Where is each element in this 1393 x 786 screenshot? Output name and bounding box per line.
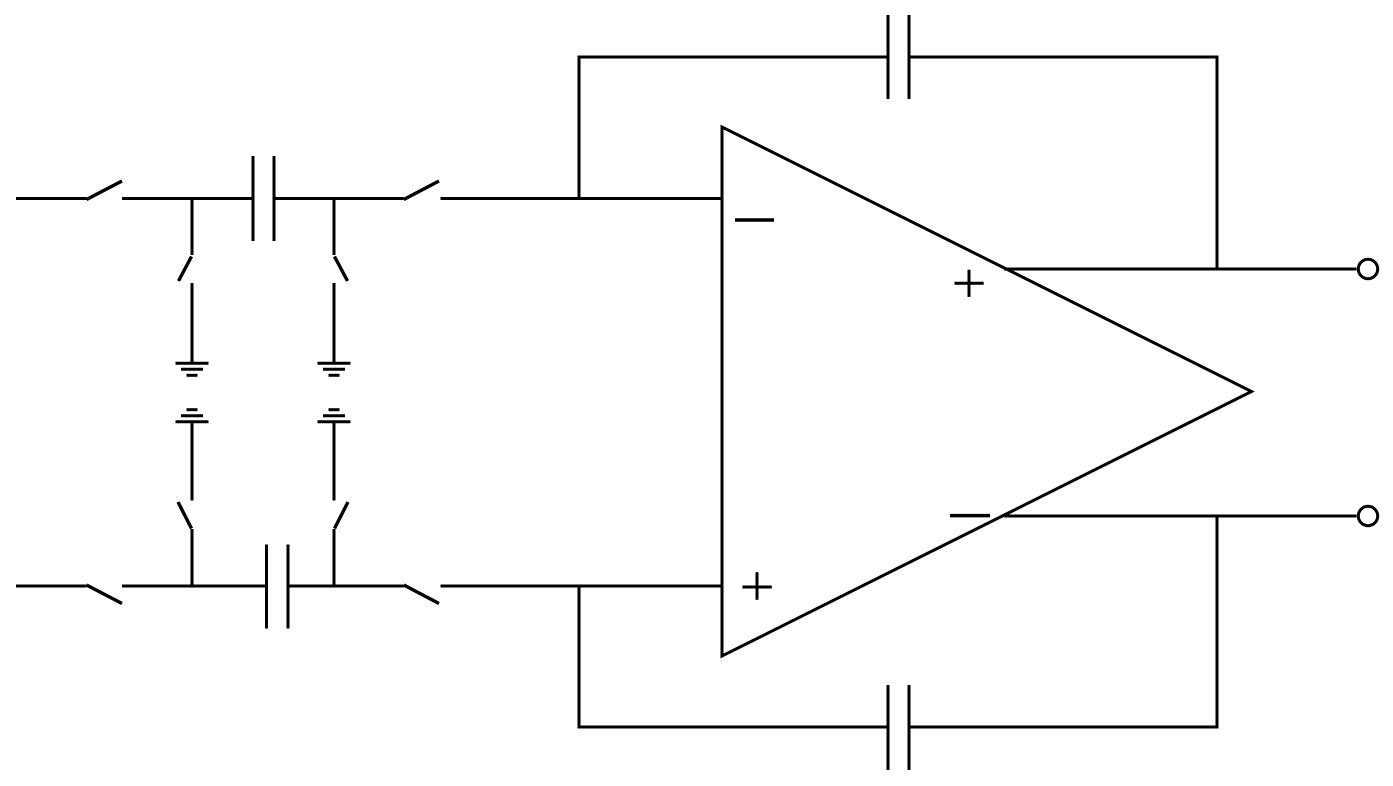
terminal OUT+ circle (1358, 259, 1377, 278)
wire top rail from S2 to op-amp inverting input (441, 197, 723, 200)
wire bottom rail from S8 to op-amp non-inverting input (441, 585, 723, 588)
wire feedback tap up (left vertical of top loop) (578, 56, 581, 199)
wire negative output (1004, 515, 1357, 518)
wire bottom input left segment (16, 585, 87, 588)
wire bottom feedback rail left of C4 (578, 726, 889, 729)
node B vertical stub (top-right, x=334) (333, 199, 336, 256)
capacitor C2 right plate (287, 545, 290, 629)
wire from S4 to ground G3 (333, 283, 336, 363)
capacitor C1 left plate (252, 156, 255, 241)
switch S2 blade (top rail) (404, 181, 439, 200)
flipped ground G4 (reference source, right) (318, 410, 351, 422)
switch S6 blade (right, to bottom rail) (335, 502, 349, 529)
wire from S3 to ground G1 (191, 283, 194, 363)
op-amp U1 non-inverting input label (plus) (742, 572, 771, 600)
ground G3 (318, 363, 351, 375)
ground G1 (176, 363, 209, 375)
wire from G4 down to switch S6 (333, 422, 336, 501)
capacitor C2 left plate (265, 545, 268, 629)
wire bottom feedback rail right of C4 (909, 726, 1219, 729)
flipped ground G2 (reference source, left) (176, 410, 209, 422)
wire top feedback rail left of C3 (578, 56, 889, 59)
wire feedback tap down (left vertical of bottom loop) (578, 586, 581, 729)
wire top feedback right vertical down to output (1216, 56, 1219, 270)
wire top feedback rail right of C3 (909, 56, 1219, 59)
switch S1 blade (top input) (87, 181, 123, 200)
wire from S5 to bottom rail node C (191, 529, 194, 586)
capacitor C4 right plate (908, 685, 911, 770)
wire bottom rail from C2 to switch S8 (288, 585, 404, 588)
switch S8 blade (bottom rail) (404, 585, 439, 604)
wire positive output (1004, 268, 1357, 271)
switch S7 blade (bottom input) (87, 585, 123, 604)
capacitor C4 left plate (887, 685, 890, 770)
op-amp U1 inverting input label (minus) (735, 218, 774, 222)
capacitor C3 left plate (887, 15, 890, 99)
op-amp U1 positive output label (plus) (955, 270, 984, 297)
node A vertical stub (top-left, x=192) (191, 199, 194, 256)
wire top input left segment (16, 197, 87, 200)
op-amp U1 negative output label (minus) (950, 514, 990, 518)
switch S3 blade (node A to ground) (179, 257, 192, 282)
wire bottom feedback right vertical up to output (1216, 516, 1219, 729)
switch S4 blade (node B to ground) (335, 257, 348, 282)
wire from G2 down to switch S5 (191, 422, 194, 501)
wire top rail from C1 to switch S2 (274, 197, 404, 200)
wire from S6 to bottom rail node D (333, 529, 336, 586)
wire bottom rail from S7 to capacitor C2 (122, 585, 267, 588)
terminal OUT- circle (1358, 506, 1377, 525)
op-amp U1 triangle (722, 127, 1252, 656)
switch S5 blade (left, to bottom rail) (178, 502, 192, 529)
wire top rail from S1 to capacitor C1 (122, 197, 253, 200)
capacitor C1 right plate (273, 156, 276, 241)
capacitor C3 right plate (908, 15, 911, 99)
